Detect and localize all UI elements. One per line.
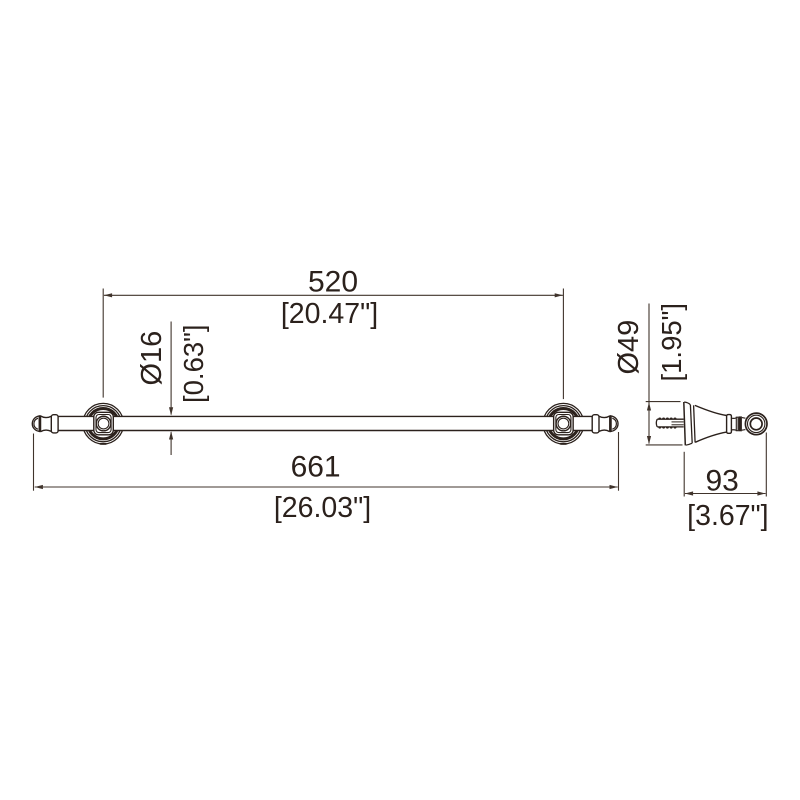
svg-text:661: 661 — [291, 451, 341, 484]
svg-text:[0.63"]: [0.63"] — [178, 324, 209, 403]
svg-text:[3.67"]: [3.67"] — [687, 500, 768, 532]
svg-text:Ø16: Ø16 — [136, 331, 168, 386]
svg-text:520: 520 — [308, 266, 358, 299]
svg-text:93: 93 — [706, 465, 739, 498]
svg-text:[1.95"]: [1.95"] — [656, 303, 687, 382]
svg-text:Ø49: Ø49 — [613, 320, 645, 375]
svg-text:[26.03"]: [26.03"] — [274, 492, 371, 524]
svg-text:[20.47"]: [20.47"] — [281, 298, 378, 330]
